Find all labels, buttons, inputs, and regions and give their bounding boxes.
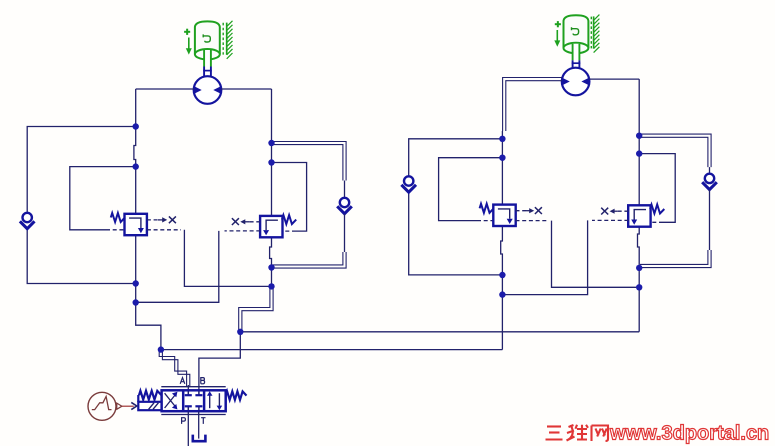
node j2: [133, 163, 139, 169]
wire CV2 stub upper: [344, 181, 346, 199]
wire right main vertical (right circuit) upper: [638, 79, 640, 205]
rotary inertia load J1 (left): [184, 21, 232, 60]
relief valve RV1: [111, 213, 147, 235]
node j1: [133, 123, 139, 129]
rotary inertia load J2 (right): [554, 15, 599, 54]
wire inner pilot loop (RV3): [439, 158, 503, 221]
relief valve RV3: [480, 204, 516, 226]
node j7: [268, 264, 274, 270]
node j14: [636, 150, 642, 156]
wire double to CV4 top: [640, 134, 711, 167]
node j5: [268, 140, 274, 146]
hydraulic motor M1 (left): [194, 76, 222, 104]
wire left main vertical (right circuit) upper: [501, 131, 503, 205]
wire valve top rail: [161, 386, 225, 388]
wire right main vertical lower (left circuit): [270, 237, 272, 286]
DV1 right spring: [226, 391, 247, 399]
wire cross pilot RV4 to left line: [502, 220, 628, 294]
wire inner pilot loop (RV4): [639, 154, 675, 223]
wire inner pilot loop (RV2): [272, 163, 307, 232]
hydraulic motor M2 (right): [562, 68, 590, 96]
watermark 3dportal.cn: [546, 423, 770, 445]
wire CV4 stub upper: [709, 167, 711, 174]
signal source S1 (ramp): [88, 392, 116, 420]
node B junction: [237, 329, 243, 335]
node j12: [499, 291, 505, 297]
wire port T down: [198, 412, 200, 439]
check valve CV3: [401, 176, 416, 192]
svg-text:www.3dportal.cn: www.3dportal.cn: [609, 423, 769, 445]
wire left main vertical upper: [134, 89, 136, 214]
wire double to CV2 top: [272, 142, 346, 181]
DV1 proportional solenoid: [138, 395, 161, 410]
pilot port x of RV1: [147, 216, 176, 223]
relief valve RV4: [628, 205, 664, 227]
check valve CV2: [337, 198, 352, 214]
wire bus right of M1: [221, 88, 272, 90]
directional valve DV1 body: [162, 390, 226, 411]
wire double from CV4 bottom: [640, 250, 711, 268]
pilot port x of RV3: [516, 207, 542, 214]
wire left main vertical (right circuit) lower: [501, 227, 503, 350]
node j11: [499, 272, 505, 278]
wire outer loop top (right circuit left): [409, 139, 503, 177]
shaft left load to motor M1: [203, 50, 212, 77]
DV1 right position parallel arrows: [207, 391, 222, 410]
wire outer loop bottom (right circuit left): [409, 193, 503, 275]
wire elbow to node A: [136, 303, 161, 350]
wire port B to node B: [199, 332, 240, 391]
wire cross pilot RV1 to node: [147, 230, 272, 287]
node j3: [133, 280, 139, 286]
wire long line A (y=349.6): [161, 349, 503, 351]
relief valve RV2: [260, 215, 296, 237]
wire double bus left of M2: [503, 78, 562, 132]
tank T1: [193, 435, 206, 442]
wire bus right of M2: [589, 78, 639, 80]
node j16: [636, 284, 642, 290]
wire outer loop top (left): [27, 127, 136, 213]
node j6: [268, 159, 274, 165]
wire cross pilot RV3 to right line: [516, 221, 640, 288]
check valve CV1: [20, 213, 35, 229]
port labels P T: [182, 418, 206, 424]
shaft right load to motor M2: [572, 44, 581, 70]
wire valve bottom rail: [161, 414, 225, 416]
wire inner pilot loop (RV1): [70, 167, 136, 230]
signal link arrow to DV1: [117, 402, 137, 409]
pilot port x of RV4: [601, 208, 628, 215]
node j10: [499, 155, 505, 161]
node j13: [636, 133, 642, 139]
wire port P down: [187, 412, 189, 446]
pilot port x of RV2: [232, 218, 260, 225]
node j4: [133, 299, 139, 305]
wire CV2 stub lower: [344, 214, 346, 252]
DV1 centre position blocked ports: [185, 392, 203, 411]
wire port A stub: [187, 385, 189, 391]
check valve CV4: [702, 174, 717, 190]
wire cross pilot RV2 to left line: [136, 231, 261, 302]
DV1 left spring: [139, 391, 162, 400]
node j8: [268, 283, 274, 289]
wire long line B (y=331.8): [240, 331, 639, 333]
wire double stair to node B: [239, 289, 273, 331]
DV1 left position crossed arrows: [165, 392, 178, 410]
wire CV4 stub lower: [709, 190, 711, 250]
node A junction: [158, 346, 164, 352]
wire outer loop bottom (left): [27, 229, 136, 283]
wire left main vertical lower: [135, 235, 137, 303]
wire right main vertical (right circuit) lower: [638, 227, 640, 332]
wire bus left of M1: [136, 88, 194, 90]
node j9: [499, 136, 505, 142]
port labels A B: [180, 378, 204, 384]
wire right main vertical upper (left circuit): [271, 89, 273, 216]
node j15: [636, 265, 642, 271]
wire double stair node A to port A: [159, 351, 190, 387]
wire double from CV2 bottom: [272, 252, 346, 268]
